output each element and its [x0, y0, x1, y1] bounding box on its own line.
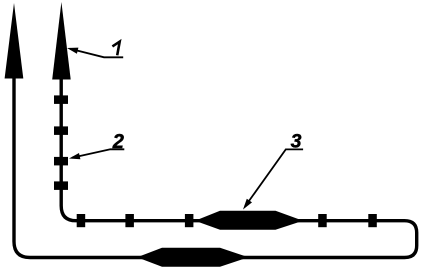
- antenna arrow right (element 1): [52, 2, 70, 80]
- leader line for label 2: [72, 149, 124, 158]
- spindle element on bottom wire: [137, 248, 249, 267]
- svg-text:3: 3: [291, 131, 302, 153]
- bead on horizontal wire 4: [318, 214, 327, 227]
- bead on horizontal wire 5: [368, 214, 377, 227]
- bead on horizontal wire 2: [125, 214, 133, 227]
- bead on vertical wire 2: [54, 126, 68, 134]
- bead on vertical wire 3 (element 2): [54, 157, 68, 166]
- leader arrowhead 3: [243, 199, 252, 210]
- bead on horizontal wire 3: [185, 214, 194, 227]
- leader line for label 1: [70, 49, 123, 58]
- spindle element 3 on horizontal wire: [195, 211, 303, 230]
- antenna arrow left: [5, 3, 24, 79]
- svg-text:2: 2: [112, 131, 124, 153]
- leader arrowhead 1: [67, 48, 78, 54]
- bead on vertical wire 1: [54, 95, 68, 104]
- label 1: [112, 42, 119, 56]
- leader line for label 3: [245, 149, 303, 206]
- leader arrowhead 2: [69, 153, 80, 159]
- bead on horizontal wire 1: [77, 214, 86, 227]
- wire main loop: [14, 78, 417, 258]
- bead on vertical wire 4: [54, 181, 68, 190]
